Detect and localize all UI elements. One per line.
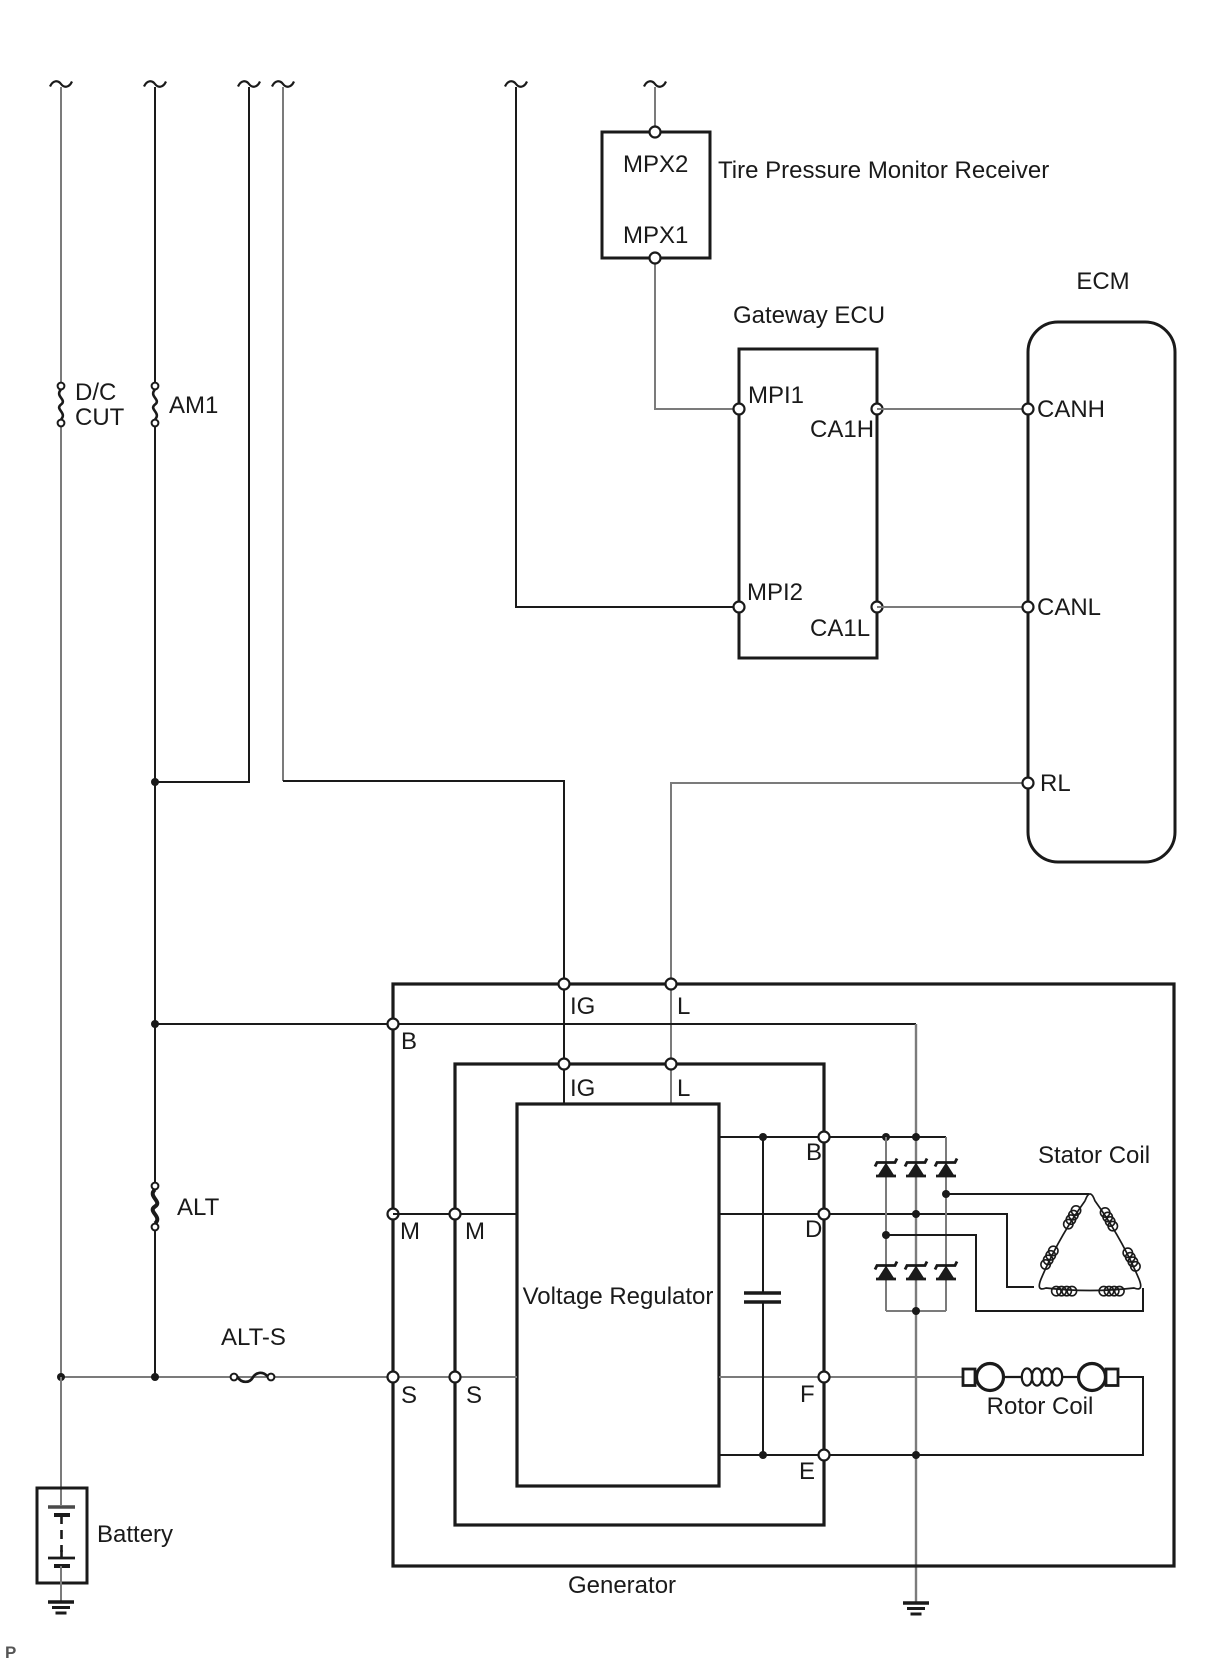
svg-text:MPX1: MPX1 xyxy=(623,222,688,249)
svg-text:Battery: Battery xyxy=(97,1521,173,1548)
svg-text:MPI1: MPI1 xyxy=(748,382,804,409)
svg-text:ECM: ECM xyxy=(1076,268,1129,295)
svg-text:Rotor Coil: Rotor Coil xyxy=(987,1393,1094,1420)
svg-text:ALT: ALT xyxy=(177,1194,220,1221)
svg-text:L: L xyxy=(677,993,690,1020)
svg-text:MPI2: MPI2 xyxy=(747,579,803,606)
svg-text:MPX2: MPX2 xyxy=(623,151,688,178)
svg-text:Gateway ECU: Gateway ECU xyxy=(733,302,885,329)
svg-text:L: L xyxy=(677,1075,690,1102)
svg-text:AM1: AM1 xyxy=(169,392,218,419)
svg-text:CUT: CUT xyxy=(75,404,125,431)
svg-text:IG: IG xyxy=(570,993,595,1020)
svg-text:M: M xyxy=(400,1218,420,1245)
svg-text:RL: RL xyxy=(1040,770,1071,797)
svg-text:ALT-S: ALT-S xyxy=(221,1324,286,1351)
svg-text:F: F xyxy=(800,1381,815,1408)
svg-text:S: S xyxy=(466,1382,482,1409)
svg-text:CA1L: CA1L xyxy=(810,615,870,642)
svg-text:S: S xyxy=(401,1382,417,1409)
svg-text:Generator: Generator xyxy=(568,1572,676,1599)
svg-text:D/C: D/C xyxy=(75,379,116,406)
svg-text:Tire Pressure Monitor Receiver: Tire Pressure Monitor Receiver xyxy=(718,157,1049,184)
svg-text:Stator Coil: Stator Coil xyxy=(1038,1142,1150,1169)
svg-text:B: B xyxy=(806,1139,822,1166)
svg-text:P: P xyxy=(5,1643,16,1662)
svg-text:CA1H: CA1H xyxy=(810,416,874,443)
svg-text:CANH: CANH xyxy=(1037,396,1105,423)
svg-text:B: B xyxy=(401,1028,417,1055)
svg-text:Voltage Regulator: Voltage Regulator xyxy=(523,1283,714,1310)
svg-text:IG: IG xyxy=(570,1075,595,1102)
svg-text:M: M xyxy=(465,1218,485,1245)
svg-text:D: D xyxy=(805,1216,822,1243)
svg-text:CANL: CANL xyxy=(1037,594,1101,621)
svg-text:E: E xyxy=(799,1458,815,1485)
